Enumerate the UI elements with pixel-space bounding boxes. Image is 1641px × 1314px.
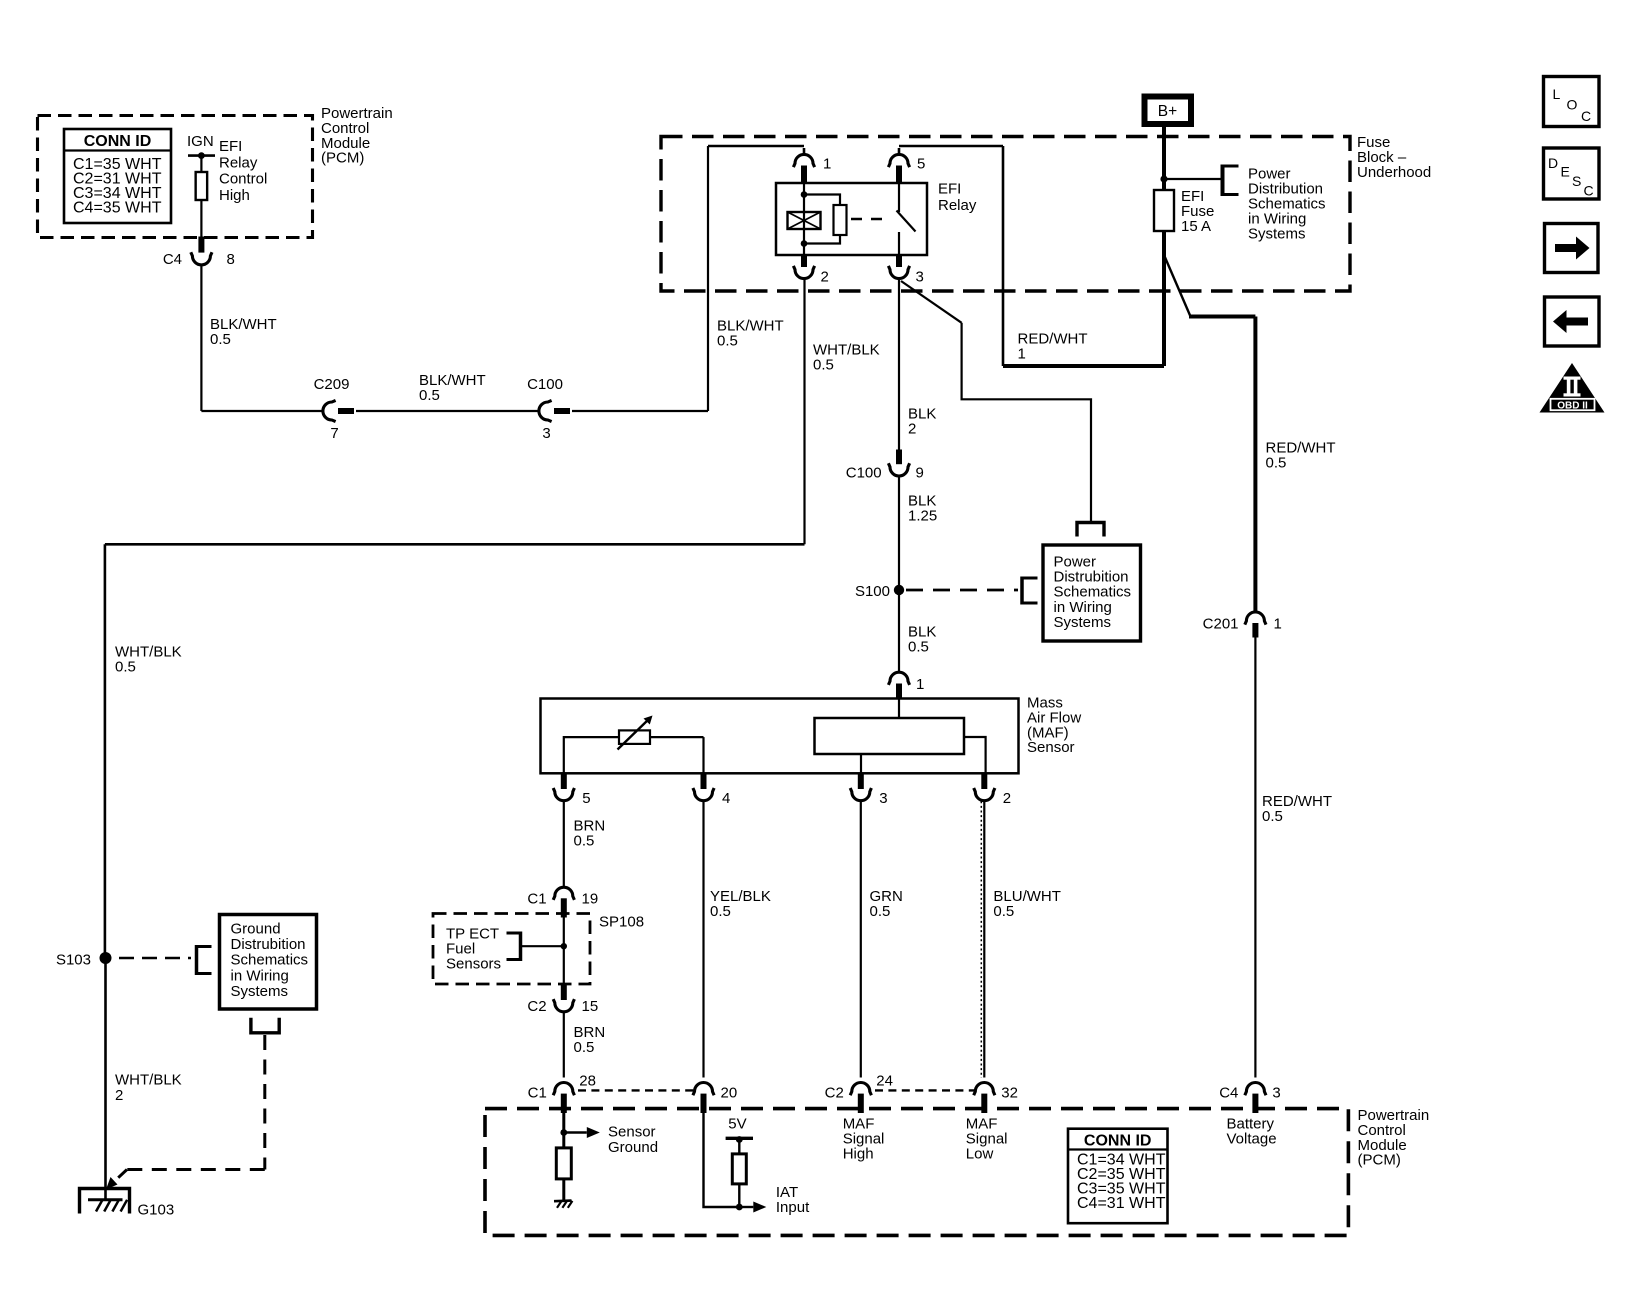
svg-text:in Wiring: in Wiring: [231, 967, 289, 984]
svg-text:S100: S100: [855, 583, 890, 600]
svg-text:C4=31 WHT: C4=31 WHT: [1077, 1195, 1166, 1212]
svg-text:Ground: Ground: [608, 1139, 658, 1156]
svg-text:C: C: [1581, 108, 1591, 124]
svg-text:4: 4: [722, 790, 730, 807]
svg-text:0.5: 0.5: [210, 331, 231, 348]
svg-text:Systems: Systems: [1248, 226, 1306, 243]
svg-text:C1: C1: [527, 891, 546, 908]
svg-text:Ground: Ground: [231, 921, 281, 938]
svg-text:2: 2: [908, 421, 916, 438]
svg-text:3: 3: [542, 425, 550, 442]
svg-text:2: 2: [821, 269, 829, 286]
svg-text:19: 19: [582, 891, 599, 908]
svg-text:SP108: SP108: [599, 914, 644, 931]
svg-text:0.5: 0.5: [710, 903, 731, 920]
svg-text:0.5: 0.5: [908, 639, 929, 656]
svg-text:0.5: 0.5: [574, 1039, 595, 1056]
svg-text:5V: 5V: [728, 1116, 746, 1133]
svg-text:Distrubition: Distrubition: [231, 936, 306, 953]
svg-text:15 A: 15 A: [1181, 218, 1211, 235]
svg-text:EFI: EFI: [219, 138, 242, 155]
svg-text:1: 1: [1018, 346, 1026, 363]
svg-text:Sensor: Sensor: [1027, 739, 1075, 756]
svg-text:EFI: EFI: [938, 181, 961, 198]
svg-text:24: 24: [876, 1073, 893, 1090]
svg-text:32: 32: [1001, 1085, 1018, 1102]
svg-text:OBD II: OBD II: [1557, 400, 1588, 411]
svg-text:C4=35 WHT: C4=35 WHT: [73, 200, 162, 217]
svg-text:1.25: 1.25: [908, 508, 937, 525]
svg-text:0.5: 0.5: [1262, 808, 1283, 825]
svg-text:C1: C1: [528, 1085, 547, 1102]
svg-text:S103: S103: [56, 952, 91, 969]
svg-text:D: D: [1548, 155, 1558, 171]
svg-text:Sensor: Sensor: [608, 1124, 656, 1141]
svg-text:C4: C4: [1219, 1085, 1238, 1102]
svg-text:CONN ID: CONN ID: [1084, 1133, 1152, 1150]
svg-text:High: High: [843, 1146, 874, 1163]
svg-text:2: 2: [115, 1087, 123, 1104]
svg-text:0.5: 0.5: [993, 903, 1014, 920]
svg-text:Control: Control: [219, 171, 267, 188]
svg-text:L: L: [1553, 86, 1561, 102]
svg-text:1: 1: [823, 156, 831, 173]
svg-text:C: C: [1584, 183, 1594, 199]
svg-text:0.5: 0.5: [870, 903, 891, 920]
svg-text:7: 7: [330, 425, 338, 442]
svg-text:(PCM): (PCM): [1358, 1152, 1401, 1169]
svg-text:C2: C2: [825, 1085, 844, 1102]
svg-text:Relay: Relay: [938, 197, 977, 214]
svg-text:0.5: 0.5: [419, 387, 440, 404]
svg-text:WHT/BLK: WHT/BLK: [115, 1072, 182, 1089]
svg-text:RED/WHT: RED/WHT: [1018, 331, 1088, 348]
svg-text:Sensors: Sensors: [446, 955, 501, 972]
svg-text:IGN: IGN: [187, 133, 214, 150]
svg-text:2: 2: [1003, 790, 1011, 807]
svg-text:Relay: Relay: [219, 154, 258, 171]
svg-text:5: 5: [917, 156, 925, 173]
svg-text:E: E: [1561, 164, 1570, 180]
svg-text:C201: C201: [1203, 616, 1239, 633]
svg-text:0.5: 0.5: [1266, 455, 1287, 472]
svg-text:1: 1: [916, 676, 924, 693]
svg-text:0.5: 0.5: [574, 833, 595, 850]
svg-text:(PCM): (PCM): [321, 150, 364, 167]
svg-text:5: 5: [582, 790, 590, 807]
svg-text:9: 9: [916, 465, 924, 482]
svg-text:CONN ID: CONN ID: [84, 133, 152, 150]
svg-text:C100: C100: [846, 465, 882, 482]
svg-text:C209: C209: [314, 376, 350, 393]
svg-text:G103: G103: [138, 1202, 175, 1219]
svg-text:3: 3: [879, 790, 887, 807]
svg-text:B+: B+: [1158, 103, 1177, 120]
svg-text:0.5: 0.5: [813, 357, 834, 374]
svg-text:15: 15: [582, 998, 599, 1015]
svg-text:0.5: 0.5: [717, 333, 738, 350]
svg-text:3: 3: [916, 269, 924, 286]
svg-text:8: 8: [227, 251, 235, 268]
svg-text:C4: C4: [163, 251, 182, 268]
svg-text:O: O: [1567, 97, 1578, 113]
svg-text:28: 28: [579, 1073, 596, 1090]
svg-text:Systems: Systems: [231, 983, 289, 1000]
svg-text:3: 3: [1272, 1085, 1280, 1102]
svg-text:0.5: 0.5: [115, 659, 136, 676]
svg-text:Input: Input: [776, 1199, 810, 1216]
svg-text:Systems: Systems: [1054, 614, 1112, 631]
svg-text:20: 20: [721, 1085, 738, 1102]
svg-text:Low: Low: [966, 1146, 994, 1163]
svg-text:Voltage: Voltage: [1227, 1131, 1277, 1148]
svg-text:High: High: [219, 187, 250, 204]
svg-text:Schematics: Schematics: [231, 952, 309, 969]
svg-text:C2: C2: [527, 998, 546, 1015]
svg-text:C100: C100: [527, 376, 563, 393]
svg-text:S: S: [1572, 173, 1581, 189]
svg-text:Underhood: Underhood: [1357, 164, 1431, 181]
svg-text:1: 1: [1274, 616, 1282, 633]
